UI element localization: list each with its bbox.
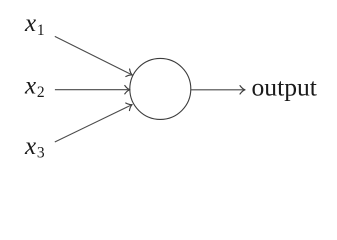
wire input 1 xyxy=(55,36,131,74)
svg-text:x1: x1 xyxy=(24,10,45,39)
arrowhead output xyxy=(240,86,245,94)
arrowhead input 2 xyxy=(125,86,130,94)
arrowhead input 1 xyxy=(126,69,134,79)
wire input 2 xyxy=(55,89,128,91)
wire input 3 xyxy=(55,105,131,142)
svg-text:x3: x3 xyxy=(24,133,45,162)
wire output xyxy=(191,89,244,91)
arrowhead input 3 xyxy=(126,101,134,111)
svg-text:output: output xyxy=(252,72,317,101)
svg-text:x2: x2 xyxy=(24,73,45,102)
neuron circle xyxy=(130,58,191,119)
